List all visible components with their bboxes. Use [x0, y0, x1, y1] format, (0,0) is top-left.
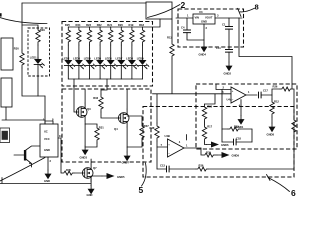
svg-text:6: 6: [291, 188, 296, 198]
svg-text:R29: R29: [40, 28, 45, 32]
svg-text:R24: R24: [76, 23, 81, 27]
resistor R30b: [202, 104, 206, 122]
svg-text:R30: R30: [207, 105, 212, 109]
svg-text:R12: R12: [274, 100, 279, 104]
LED D6: [107, 58, 117, 69]
svg-text:XC: XC: [44, 130, 48, 134]
svg-text:R19: R19: [129, 23, 134, 27]
svg-text:R38: R38: [150, 126, 155, 130]
resistor R38: [155, 123, 159, 141]
LED D8: [128, 58, 138, 69]
wire C17 to R12: [261, 94, 272, 96]
svg-text:C11: C11: [216, 46, 221, 50]
svg-text:R22: R22: [97, 23, 102, 27]
resistor R35: [62, 171, 74, 175]
wire string2: [78, 27, 80, 79]
wire top bus: [22, 2, 146, 4]
wire leader 2: [148, 5, 181, 18]
box LED array dashed: [62, 22, 153, 87]
svg-text:GND2: GND2: [224, 72, 232, 76]
wire R37 bottom: [127, 141, 142, 147]
box block8 dashed: [178, 9, 244, 47]
capacitor C18: [222, 141, 234, 143]
svg-text:10: 10: [59, 134, 62, 138]
wire R38 to U4B: [157, 141, 168, 147]
LED D4: [86, 58, 96, 69]
wire drop left to Q3: [74, 79, 75, 112]
wire LED array bottom bus: [68, 78, 142, 80]
transistor Q4: [117, 109, 129, 127]
wire leader 6: [267, 175, 290, 192]
wire U3 pin3 to rail: [215, 17, 242, 19]
resistor R36 feedback: [169, 168, 196, 170]
ground GND IC: [45, 170, 52, 179]
wire IC feed left: [2, 107, 45, 124]
svg-text:LED3: LED3: [73, 56, 80, 60]
resistor R19: [130, 27, 134, 45]
svg-text:GND: GND: [44, 179, 50, 183]
svg-text:LED4: LED4: [84, 56, 91, 60]
wire string6: [120, 27, 122, 79]
wire R16 to output node: [272, 89, 280, 95]
wire U4B power stub: [186, 135, 188, 141]
wire U4A in3 sense: [205, 94, 216, 104]
op-amp U4A: [231, 87, 246, 103]
svg-text:R17: R17: [207, 125, 212, 129]
resistor R23: [87, 27, 91, 45]
wire LED array top bus: [68, 19, 160, 27]
wire leader 8: [238, 8, 255, 16]
wire IC pin10 to Q7 gate: [58, 138, 62, 173]
wire Q4 drain up: [126, 89, 128, 109]
svg-text:GND3: GND3: [80, 156, 88, 160]
wire U4A out: [246, 94, 257, 96]
wire R35 to gate: [74, 172, 81, 174]
svg-text:C18: C18: [236, 136, 241, 140]
svg-text:R20: R20: [118, 23, 123, 27]
wire feedback to right rail: [208, 135, 294, 169]
resistor R25: [66, 27, 70, 45]
wire R11 down: [153, 59, 232, 123]
resistor R39 load: [201, 148, 203, 155]
svg-text:GND4: GND4: [199, 53, 207, 57]
IC U2 driver: [40, 124, 58, 157]
wire C18 loop rails: [222, 90, 252, 143]
regulator U3: [193, 14, 215, 24]
resistor R18: [140, 27, 144, 45]
LED D1 indicator: [34, 57, 44, 68]
wire IC bottom pin: [47, 157, 49, 170]
wire leader curve bottom left: [0, 158, 45, 182]
wire Q3 source down: [84, 121, 86, 146]
ground GND1 U4A: [240, 100, 242, 116]
svg-text:C17: C17: [263, 89, 268, 93]
box block2 power input: [146, 2, 172, 19]
ground GND8 under R12: [271, 117, 273, 123]
transistor Q8 photo: [14, 146, 40, 167]
ground GND3: [82, 146, 89, 155]
svg-text:R30: R30: [14, 47, 19, 51]
ground GND7: [124, 152, 131, 161]
svg-text:VCC: VCC: [44, 137, 50, 141]
wire R33 to Q4 gate: [101, 112, 117, 118]
wire R31 bottom: [85, 143, 97, 147]
wire LED1 to IC: [44, 96, 46, 120]
wire U3 pin1: [176, 17, 193, 19]
resistor R37: [127, 116, 142, 123]
box block5 dashed: [62, 89, 151, 162]
svg-text:VOUT: VOUT: [205, 16, 213, 20]
resistor R31: [85, 124, 97, 125]
svg-text:GND: GND: [44, 148, 50, 152]
capacitor C4: [186, 18, 188, 30]
wire 5V rail right: [239, 18, 292, 89]
wire LED1 down: [37, 45, 39, 96]
wire leader 5: [142, 163, 147, 186]
transistor Q3: [75, 103, 87, 121]
svg-text:C13: C13: [160, 164, 165, 168]
wire Q3 drain up: [84, 89, 86, 103]
svg-text:GND9: GND9: [232, 154, 240, 158]
svg-text:R26: R26: [273, 85, 278, 89]
svg-text:R25: R25: [65, 23, 70, 27]
resistor R11: [171, 19, 173, 41]
svg-text:R18: R18: [139, 23, 144, 27]
box LED1 dashed: [28, 28, 50, 76]
capacitor C13 feedback: [157, 168, 167, 170]
wire drop mid: [101, 79, 107, 94]
wire U4B inverting: [156, 147, 158, 169]
resistor R12: [271, 95, 273, 99]
ground GND2: [228, 52, 230, 62]
ground GND9 arrow right: [215, 154, 217, 156]
ground GND5 arrow right: [91, 175, 102, 177]
wire U4B out: [184, 147, 201, 149]
svg-text:C1: C1: [222, 23, 226, 27]
wire string4: [99, 27, 101, 79]
svg-text:LED8: LED8: [126, 56, 133, 60]
LED D3: [75, 58, 85, 69]
svg-text:LED5: LED5: [94, 56, 101, 60]
wire R29 feed: [22, 25, 38, 27]
ground GND under Q7: [88, 185, 95, 194]
ground GND6 arrow right: [205, 142, 207, 145]
svg-text:GND: GND: [87, 193, 93, 197]
wire string5: [110, 27, 112, 79]
LED D2: [64, 58, 74, 69]
resistor R17: [204, 122, 206, 124]
node box3 dark label block: [0, 128, 10, 143]
resistor R22: [98, 27, 102, 45]
resistor R29: [36, 27, 40, 45]
svg-text:8: 8: [255, 3, 259, 12]
resistor R30: [20, 50, 24, 68]
svg-text:R33: R33: [93, 96, 98, 100]
wire bottom bus: [0, 178, 91, 184]
svg-text:LED9: LED9: [137, 56, 144, 60]
svg-text:R21: R21: [107, 23, 112, 27]
svg-text:5: 5: [139, 185, 144, 195]
wire Q7 drain up: [90, 159, 92, 164]
svg-text:R36: R36: [199, 164, 204, 168]
wire string8: [142, 27, 144, 79]
svg-text:LED6: LED6: [105, 56, 112, 60]
LED D5: [96, 58, 106, 69]
svg-text:LED1: LED1: [30, 55, 37, 59]
svg-text:GND6: GND6: [221, 143, 229, 147]
wire string1: [67, 27, 69, 79]
capacitor C1: [228, 18, 230, 27]
svg-text:LED2: LED2: [63, 56, 70, 60]
svg-text:Q7: Q7: [93, 166, 97, 170]
svg-text:R35: R35: [66, 168, 71, 172]
wire U3 pin2 down: [203, 24, 205, 40]
wire R13 up to rail: [292, 89, 294, 117]
resistor R13 right edge: [292, 117, 296, 135]
svg-text:R15: R15: [234, 124, 239, 128]
svg-text:VIN: VIN: [195, 16, 200, 20]
wire U4A in2: [216, 84, 231, 90]
box T1 upper-left block: [1, 38, 13, 70]
svg-text:GND: GND: [201, 20, 207, 24]
svg-text:R11: R11: [167, 36, 172, 40]
wire left rail upper: [21, 3, 23, 50]
svg-text:Q3: Q3: [87, 107, 91, 111]
resistor R15 feedback: [222, 128, 228, 130]
box T2 left narrow block: [1, 78, 12, 107]
box block7 dashed: [196, 84, 297, 149]
resistor R33: [99, 94, 103, 112]
wire left rail lower: [22, 68, 45, 96]
wire string7: [131, 27, 133, 79]
resistor R24: [77, 27, 81, 45]
svg-text:U4B: U4B: [165, 134, 170, 138]
svg-text:U3: U3: [199, 10, 203, 14]
wire string3: [89, 27, 91, 79]
capacitor C17: [259, 92, 262, 99]
LED D7: [117, 58, 127, 69]
resistor R26 top right: [280, 87, 292, 91]
svg-text:R23: R23: [86, 23, 91, 27]
resistor R20: [119, 27, 123, 45]
svg-text:GND5: GND5: [117, 175, 125, 179]
svg-text:GND8: GND8: [267, 133, 275, 137]
box block6 dashed: [143, 107, 294, 178]
ground GND4: [203, 40, 205, 43]
wire Q4 source down: [126, 127, 128, 152]
svg-text:C4: C4: [181, 26, 185, 30]
wire Q7 source node: [90, 177, 92, 186]
LED D9: [139, 58, 149, 69]
svg-text:LED7: LED7: [116, 56, 123, 60]
svg-text:GND7: GND7: [122, 161, 130, 165]
svg-text:R37: R37: [144, 124, 149, 128]
capacitor C11: [228, 29, 230, 49]
svg-text:Q4: Q4: [114, 127, 118, 131]
node label stub left edge: [0, 13, 2, 16]
transistor Q7: [81, 164, 93, 182]
wire IC top pins: [45, 121, 53, 124]
op-amp U4B: [168, 139, 185, 157]
svg-text:R31: R31: [99, 126, 104, 130]
resistor R21: [109, 27, 113, 45]
wire leader into left rail: [0, 18, 47, 24]
svg-text:R39: R39: [206, 150, 211, 154]
